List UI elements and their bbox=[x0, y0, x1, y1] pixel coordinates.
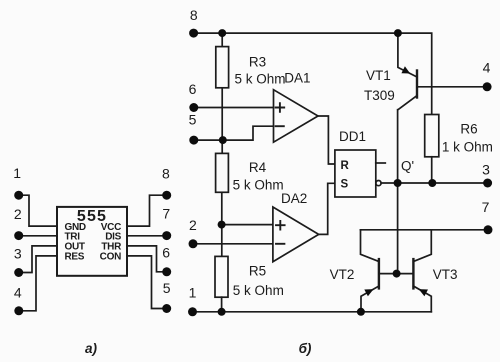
wire R5 bottom stub bbox=[221, 297, 223, 312]
svg-text:R: R bbox=[341, 160, 350, 172]
DD1 Q output stub bbox=[376, 162, 386, 164]
transistor Q VT3 base bar bbox=[412, 259, 414, 288]
resistor R4 bbox=[216, 153, 229, 192]
svg-text:R3: R3 bbox=[249, 54, 266, 69]
VT1 base wire to pin4 bbox=[417, 86, 487, 88]
wire Vcc top rail (pin 8) bbox=[194, 33, 432, 114]
svg-text:1: 1 bbox=[13, 165, 21, 181]
VT3 collector wire bbox=[413, 230, 431, 262]
svg-text:DA1: DA1 bbox=[284, 71, 310, 86]
resistor R3 bbox=[216, 47, 229, 88]
svg-text:CON: CON bbox=[100, 251, 121, 262]
node R5 bottom junction bbox=[218, 308, 226, 316]
svg-text:5 k Ohm: 5 k Ohm bbox=[233, 283, 284, 298]
wire pin3 to OUT stub bbox=[19, 246, 57, 273]
node VT1 emitter junction bbox=[394, 29, 402, 37]
svg-text:а): а) bbox=[85, 341, 98, 356]
minus sign DA1 bbox=[276, 125, 284, 127]
node pin8 (right fig) bbox=[189, 29, 198, 38]
wire ground bottom rail (pin 1) bbox=[193, 311, 432, 313]
svg-text:R5: R5 bbox=[249, 264, 266, 279]
node pin8 (left fig) bbox=[162, 191, 171, 200]
node Q' junction bbox=[394, 179, 402, 187]
node pin6 (left fig) bbox=[162, 267, 171, 276]
svg-text:5 k Ohm: 5 k Ohm bbox=[235, 71, 286, 86]
resistor R5 bbox=[215, 256, 228, 297]
wire pin5 / divider tap to DA1 - input bbox=[194, 126, 274, 140]
VT2 collector wire bbox=[361, 230, 379, 262]
minus sign DA2 bbox=[276, 243, 284, 245]
wire pin4 to RES stub bbox=[19, 256, 57, 311]
node pin6 (right fig) bbox=[189, 103, 198, 112]
VT3 emitter wire bbox=[413, 286, 431, 312]
wire pin6 to THR stub bbox=[127, 246, 167, 272]
svg-text:8: 8 bbox=[190, 7, 198, 23]
wire pin1 to GND stub bbox=[19, 195, 57, 226]
node VT2/VT3 base junction bbox=[393, 270, 401, 278]
svg-text:DD1: DD1 bbox=[339, 129, 366, 144]
resistor R6 bbox=[425, 115, 439, 157]
svg-text:5: 5 bbox=[163, 280, 171, 296]
svg-text:7: 7 bbox=[162, 206, 170, 222]
flip-flop DD1 body bbox=[335, 150, 376, 197]
svg-text:DA2: DA2 bbox=[281, 191, 307, 206]
svg-text:6: 6 bbox=[162, 245, 170, 261]
node pin7 (right fig) bbox=[484, 225, 493, 234]
VT1 collector wire bbox=[398, 96, 417, 110]
wire DA1 output to DD1 R bbox=[318, 116, 335, 164]
wire divider tap to DA2 + input bbox=[222, 224, 273, 226]
node pin3 (right fig) bbox=[483, 179, 492, 188]
svg-text:6: 6 bbox=[189, 81, 197, 97]
node pin5 (left fig) bbox=[162, 304, 171, 313]
node R3 top junction bbox=[218, 29, 226, 37]
node pin5 (right fig) bbox=[189, 136, 198, 145]
svg-text:VT3: VT3 bbox=[433, 267, 458, 282]
VT2 emitter arrow bbox=[364, 289, 373, 296]
wire R3 to R4 bbox=[221, 88, 223, 154]
wire pin7 to DIS stub bbox=[127, 235, 167, 237]
node pin1 (right fig) bbox=[188, 307, 197, 316]
wire pin2 to DA2 - input bbox=[193, 243, 273, 245]
VT3 emitter arrow bbox=[419, 289, 428, 296]
svg-text:1 k Ohm: 1 k Ohm bbox=[442, 140, 493, 155]
svg-text:2: 2 bbox=[189, 217, 197, 233]
wire pin5 to CON stub bbox=[127, 256, 167, 309]
IC U1 555 body bbox=[57, 207, 127, 276]
wire DD1 notQ to pin3 bbox=[381, 182, 488, 184]
svg-text:3: 3 bbox=[482, 162, 490, 178]
wire VT2 base to VT3 base bbox=[379, 273, 414, 275]
svg-text:4: 4 bbox=[14, 285, 22, 301]
wire pin8 to VCC stub bbox=[127, 195, 167, 226]
svg-text:б): б) bbox=[299, 341, 312, 356]
node pin1 (left) bbox=[14, 191, 23, 200]
svg-text:RES: RES bbox=[65, 251, 85, 262]
node R3/R4 junction bbox=[219, 136, 227, 144]
transistor Q VT1 base bar bbox=[416, 71, 418, 98]
DD1 inverter bubble bbox=[376, 181, 381, 186]
node pin3 (left) bbox=[14, 268, 23, 277]
svg-text:8: 8 bbox=[162, 166, 170, 182]
node R6 bottom junction bbox=[428, 179, 436, 187]
node VT2 emitter junction bbox=[357, 308, 365, 316]
op-amp DA1 bbox=[274, 90, 319, 143]
node pin4 (right fig) bbox=[483, 82, 492, 91]
node pin2 (left) bbox=[14, 231, 23, 240]
wire R6 bottom to pin3 line bbox=[431, 157, 433, 183]
wire R3 top stub bbox=[221, 33, 223, 47]
wire pin6 to DA1 + input bbox=[194, 107, 274, 109]
wire pin7 to VT2/VT3 collectors bbox=[361, 229, 489, 231]
VT1 emitter wire from rail bbox=[398, 33, 417, 77]
wire Q' vertical (VT1 collector to bases) bbox=[397, 110, 399, 274]
VT1 emitter arrow bbox=[401, 66, 410, 73]
svg-text:R4: R4 bbox=[249, 160, 267, 175]
wire R4 to R5 bbox=[221, 192, 223, 256]
plus sign DA2 bbox=[276, 221, 285, 230]
svg-text:5 k Ohm: 5 k Ohm bbox=[233, 178, 284, 193]
node pin7 (left fig) bbox=[162, 231, 171, 240]
plus sign DA1 bbox=[276, 103, 285, 112]
svg-text:T309: T309 bbox=[364, 88, 395, 103]
svg-text:5: 5 bbox=[189, 112, 197, 128]
svg-text:4: 4 bbox=[483, 60, 491, 76]
svg-text:1: 1 bbox=[189, 285, 197, 301]
svg-text:VT1: VT1 bbox=[366, 68, 391, 83]
svg-text:3: 3 bbox=[14, 246, 22, 262]
svg-text:VT2: VT2 bbox=[330, 267, 355, 282]
transistor Q VT2 base bar bbox=[378, 259, 380, 288]
svg-text:R6: R6 bbox=[460, 122, 477, 137]
svg-text:S: S bbox=[341, 179, 349, 191]
svg-text:Q': Q' bbox=[401, 159, 414, 174]
node R4/R5 junction bbox=[218, 221, 226, 229]
svg-text:2: 2 bbox=[14, 206, 22, 222]
VT2 emitter wire bbox=[361, 286, 379, 312]
wire pin2 to TRI stub bbox=[19, 235, 57, 237]
wire DA2 output to DD1 S bbox=[319, 183, 335, 234]
node pin4 (left) bbox=[14, 306, 23, 315]
node pin2 (right fig) bbox=[189, 239, 198, 248]
op-amp DA2 bbox=[273, 207, 319, 262]
svg-text:7: 7 bbox=[482, 199, 490, 215]
